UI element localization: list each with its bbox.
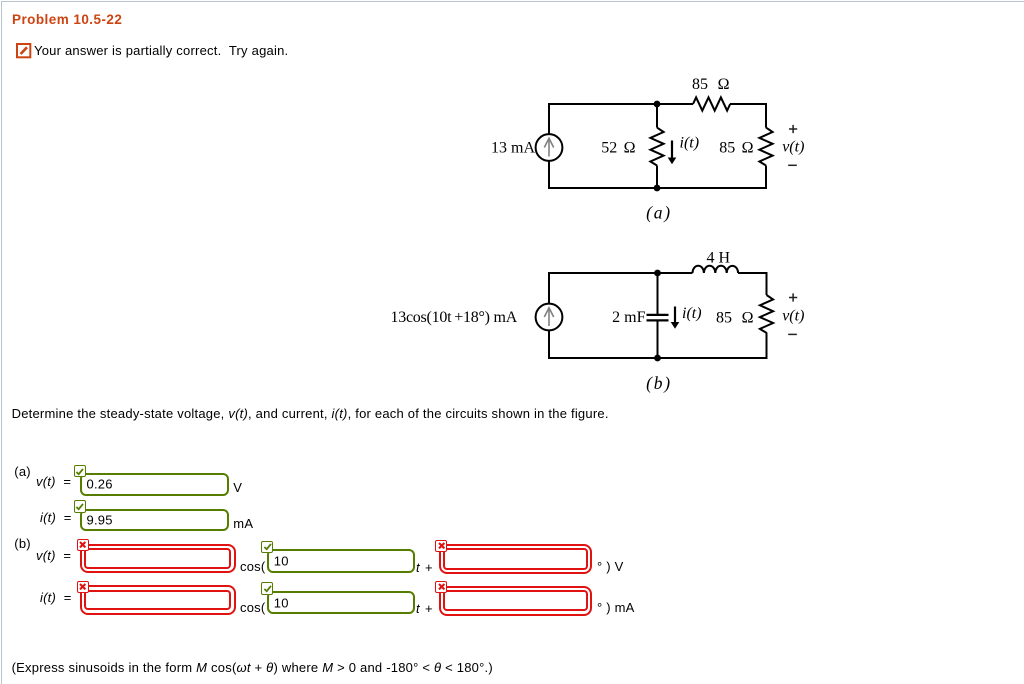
- svg-text:4 H: 4 H: [706, 250, 730, 267]
- svg-text:(b): (b): [646, 373, 672, 393]
- svg-text:13cos(10t +18°) mA: 13cos(10t +18°) mA: [390, 309, 517, 326]
- svg-text:v(t): v(t): [782, 308, 804, 325]
- svg-text:85 Ω: 85 Ω: [719, 140, 753, 157]
- svg-text:2 mF: 2 mF: [612, 309, 645, 326]
- svg-text:(a): (a): [646, 203, 672, 223]
- svg-text:52 Ω: 52 Ω: [601, 140, 635, 157]
- svg-text:85 Ω: 85 Ω: [716, 309, 754, 326]
- svg-text:85 Ω: 85 Ω: [692, 76, 730, 93]
- svg-text:v(t): v(t): [782, 139, 804, 156]
- svg-text:i(t): i(t): [682, 305, 702, 322]
- svg-text:13 mA: 13 mA: [491, 140, 535, 157]
- svg-text:i(t): i(t): [680, 135, 700, 152]
